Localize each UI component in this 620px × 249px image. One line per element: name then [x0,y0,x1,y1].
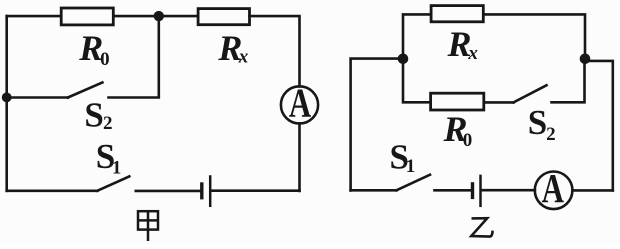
wire: 乙 R0 to S2 contact [484,101,514,104]
svg-text:0: 0 [100,49,110,70]
switch S2 blade (甲) [68,82,103,97]
svg-text:2: 2 [103,113,113,134]
label Rx (甲) [217,28,248,68]
svg-text:A: A [289,79,312,125]
node: 乙 left junction dot [398,54,409,65]
svg-text:x: x [467,43,478,64]
label R0 (乙) [443,109,473,151]
battery short plate (乙) [471,184,474,198]
svg-text:1: 1 [112,158,122,179]
wire: 乙 S1 to battery [435,189,472,192]
resistor R0 (甲) [61,8,113,25]
wire: 甲 S2 branch right segment up to junction [109,16,159,98]
wire: 乙 right node step to outer right vertical [585,61,613,191]
label S1 (乙) [390,138,416,178]
switch S2 blade (乙) [514,85,547,102]
wire: 甲 left vertical [5,16,8,191]
wire: 乙 Rx to top-right corner [483,14,585,58]
wire: 甲 top-left horizontal [7,15,62,18]
wire: 甲 bottom right (battery to corner) [212,189,300,192]
node: 甲 left junction dot [2,93,12,103]
label S2 (甲) [84,96,112,135]
node: 甲 top junction dot [154,11,164,21]
ammeter A (甲) [281,86,318,123]
wire: 甲 top right to corner [250,16,300,86]
wire: 乙 bottom right (ammeter to corner) [572,189,613,192]
wire: 乙 left node up to Rx [403,14,431,58]
wire: 乙 S2 right segment up to right node [552,59,585,103]
svg-text:2: 2 [546,124,556,145]
svg-text:1: 1 [406,156,416,177]
switch S1 blade (乙) [397,175,431,191]
resistor Rx (甲) [198,9,249,25]
svg-text:x: x [238,46,249,67]
wire: 乙 battery to ammeter [482,189,535,192]
battery long plate (乙) [479,176,482,206]
svg-text:S: S [528,103,547,142]
wire: 甲 bottom middle (S1 to battery) [136,190,201,193]
label 乙 (circuit 2 caption) [471,218,492,236]
svg-text:A: A [542,164,565,210]
switch S1 blade (甲) [97,176,129,190]
label S2 (乙) [528,103,556,145]
label A in ammeter (乙) [542,164,565,210]
svg-text:0: 0 [463,130,473,151]
battery short plate (甲) [200,184,203,198]
node: 乙 right junction dot [580,54,591,65]
label A in ammeter (甲) [289,79,312,125]
wire: 乙 bottom left [351,189,397,192]
label Rx (乙) [447,24,479,64]
label S1 (甲) [96,137,122,179]
ammeter A (乙) [535,172,573,210]
label 甲 (circuit 1 caption) [138,211,158,241]
wire: 乙 outer left vertical [351,59,403,191]
resistor R0 (乙) [431,93,484,110]
wire: 甲 S2 branch left segment [7,96,68,99]
wire: 乙 left node down to R0 [403,59,431,103]
wire: 甲 right vertical below ammeter [298,123,301,190]
label R0 (甲) [78,28,109,70]
svg-text:S: S [84,96,103,135]
wire: 甲 bottom left [7,190,98,193]
resistor Rx (乙) [431,6,483,22]
wire: 甲 top middle (R0 to Rx) [113,15,198,18]
battery long plate (甲) [209,177,212,206]
